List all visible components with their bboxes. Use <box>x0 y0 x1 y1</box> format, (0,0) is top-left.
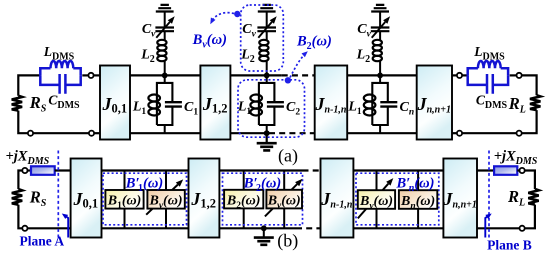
wire <box>125 171 167 229</box>
svg-text:Plane B: Plane B <box>487 238 532 253</box>
terminal <box>457 73 462 78</box>
svg-text:(a): (a) <box>278 146 298 167</box>
wire <box>477 169 494 171</box>
inverter J01 (a) <box>100 66 130 140</box>
inverter J12 (b) <box>189 159 220 238</box>
wire <box>18 171 22 190</box>
inverter J12 (a) <box>200 66 230 140</box>
arrow variable stage 2 <box>265 184 297 216</box>
varactor Cv / inductor L2 branch 2 <box>257 5 276 76</box>
svg-text:L1: L1 <box>237 100 252 118</box>
resistor RL <box>530 95 540 110</box>
resonator 2: inductor L1 / capacitor C2 <box>250 75 283 133</box>
resonator n: inductor L1 / capacitor Cn <box>364 75 397 133</box>
wire <box>377 171 419 229</box>
inverter Jn-1,n (b) <box>320 159 353 238</box>
wire <box>462 74 468 76</box>
node anchor B2 <box>285 77 291 83</box>
arrow plane A <box>65 215 69 237</box>
resistor RS (b) <box>12 189 22 205</box>
wire dashed <box>269 132 315 134</box>
svg-text:Bv(ω): Bv(ω) <box>359 194 393 212</box>
svg-text:Bv(ω): Bv(ω) <box>148 194 182 212</box>
terminal <box>520 168 525 173</box>
wire <box>230 74 281 76</box>
svg-text:(b): (b) <box>277 231 298 252</box>
svg-text:L1: L1 <box>347 100 362 118</box>
wire <box>18 75 40 95</box>
svg-text:L2: L2 <box>240 47 255 65</box>
svg-text:LDMS: LDMS <box>43 44 75 63</box>
svg-text:C1: C1 <box>184 100 198 118</box>
inverter Jn-1,n (a) <box>315 66 348 140</box>
wire <box>219 169 302 171</box>
resonator 1: inductor L1 / capacitor C1 <box>148 75 182 133</box>
wire <box>130 74 200 76</box>
plane A reference line <box>57 151 59 240</box>
svg-text:RL: RL <box>508 94 526 116</box>
terminal <box>22 168 27 173</box>
wire <box>94 132 100 134</box>
wire <box>462 132 516 134</box>
wire <box>102 169 189 171</box>
varactor Cv / inductor L2 branch n <box>371 5 390 76</box>
wire <box>230 132 269 134</box>
dashed stage box 2 <box>223 173 303 225</box>
wire <box>130 132 200 134</box>
ground <box>266 133 268 143</box>
terminal <box>88 73 93 78</box>
wire <box>452 132 457 134</box>
svg-text:B′1(ω): B′1(ω) <box>125 175 163 194</box>
wire <box>525 171 535 190</box>
node junction <box>162 73 168 79</box>
wire <box>18 111 28 134</box>
svg-text:Cv: Cv <box>142 22 156 40</box>
svg-text:L1: L1 <box>132 100 147 118</box>
reactance XDMS element left <box>31 166 55 175</box>
inverter J01 (b) <box>71 159 102 238</box>
resistor RL (b) <box>528 189 538 205</box>
wire <box>347 74 417 76</box>
node anchor Bv <box>234 11 240 17</box>
node junction <box>264 73 270 79</box>
ground <box>263 228 265 237</box>
terminal <box>457 131 462 136</box>
wire <box>244 171 285 229</box>
arrow to label Bv <box>212 13 235 22</box>
wire <box>522 75 537 95</box>
dashed stage box 1 <box>103 173 187 225</box>
inverter Jn,n+1 (b) <box>443 159 477 238</box>
svg-text:B′2(ω): B′2(ω) <box>243 175 281 194</box>
terminal <box>89 131 94 136</box>
wire <box>28 169 32 171</box>
wire <box>219 227 296 229</box>
svg-text:Cv: Cv <box>357 22 371 40</box>
wire <box>477 227 520 229</box>
svg-text:L2: L2 <box>356 47 371 65</box>
svg-text:CDMS: CDMS <box>476 93 508 112</box>
wire <box>102 227 189 229</box>
inductor LDMS / capacitor CDMS output matching network <box>468 61 508 94</box>
terminal <box>517 131 522 136</box>
wire dashed <box>282 74 315 76</box>
svg-text:L2: L2 <box>140 47 155 65</box>
terminal <box>22 226 27 231</box>
dashed box resonator 2 <box>238 80 305 137</box>
arrow plane B <box>485 215 489 237</box>
dashed box Bv branch 2 <box>241 5 284 71</box>
svg-text:B2(ω): B2(ω) <box>296 34 332 53</box>
resistor RS <box>12 96 22 111</box>
terminal <box>520 226 525 231</box>
arrow variable stage n <box>358 184 389 219</box>
svg-text:CDMS: CDMS <box>48 93 80 112</box>
wire <box>510 74 517 76</box>
svg-text:C2: C2 <box>286 100 300 118</box>
wire <box>82 74 88 76</box>
wire <box>452 74 457 76</box>
arrow variable stage 1 <box>146 185 178 215</box>
node junction <box>264 130 270 136</box>
svg-text:RS: RS <box>29 188 47 210</box>
susceptance Bn(w) <box>399 190 437 211</box>
susceptance B2(w) <box>224 190 263 211</box>
inductor LDMS / capacitor CDMS input matching network <box>40 61 80 94</box>
susceptance Bv(w) stage 2 <box>266 190 302 211</box>
inverter Jn,n+1 (a) <box>417 66 452 140</box>
svg-text:RS: RS <box>29 93 47 115</box>
svg-text:Cv: Cv <box>242 22 256 40</box>
varactor Cv / inductor L2 branch 1 with top ground <box>155 5 174 76</box>
svg-text:LDMS: LDMS <box>473 44 505 63</box>
susceptance B1(w) <box>105 190 143 211</box>
wire <box>353 169 443 171</box>
dashed stage box n <box>356 173 439 225</box>
terminal <box>517 73 522 78</box>
wire <box>353 227 443 229</box>
svg-text:Bv(ω): Bv(ω) <box>267 193 301 211</box>
svg-text:Plane A: Plane A <box>19 233 64 248</box>
arrow to label B2 <box>290 54 306 78</box>
wire <box>18 205 22 229</box>
wire <box>28 227 71 229</box>
wire <box>55 169 71 171</box>
susceptance Bv(w) stage n <box>358 190 395 211</box>
reactance XDMS element right <box>494 166 517 175</box>
svg-text:RL: RL <box>507 187 525 209</box>
svg-text:Bv(ω): Bv(ω) <box>192 32 227 51</box>
wire <box>517 169 519 171</box>
wire dashed <box>303 169 321 171</box>
wire <box>94 74 100 76</box>
svg-text:Cn: Cn <box>400 100 415 118</box>
svg-text:B2(ω): B2(ω) <box>226 193 261 211</box>
svg-text:+jXDMS: +jXDMS <box>494 149 538 168</box>
wire <box>347 132 417 134</box>
wire <box>522 110 537 133</box>
wire <box>33 132 89 134</box>
plane B reference line <box>488 151 490 239</box>
node junction ground (b) <box>261 225 267 231</box>
node junction <box>377 73 383 79</box>
svg-text:+jXDMS: +jXDMS <box>6 149 50 168</box>
terminal <box>28 131 33 136</box>
wire dashed <box>296 227 321 229</box>
wire <box>525 205 535 229</box>
svg-text:B′n(ω): B′n(ω) <box>396 175 435 194</box>
svg-text:Bn(ω): Bn(ω) <box>400 194 435 212</box>
svg-text:B1(ω): B1(ω) <box>107 194 142 212</box>
susceptance Bv(w) stage 1 <box>147 190 184 211</box>
